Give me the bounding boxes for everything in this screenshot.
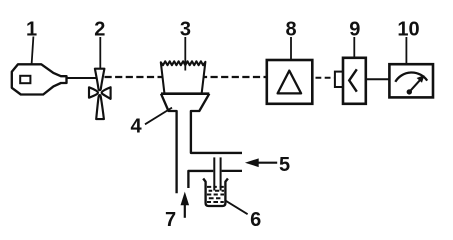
flame with zigzag top [161, 61, 206, 94]
meter needle [409, 79, 420, 92]
chopper wheel: top blade [95, 69, 105, 91]
lamp cathode window rectangle [20, 76, 30, 83]
monochromator box 8 [267, 60, 313, 104]
chopper wheel: left blade [89, 87, 98, 97]
svg-text:7: 7 [165, 209, 176, 231]
photodetector box 9 [343, 58, 366, 104]
capillary tube right wall [220, 157, 222, 190]
leader line for 2 [99, 37, 101, 69]
chopper wheel: right blade [102, 87, 111, 99]
burner collar right side, foot, stem right wall and mixing-tube top wall [191, 94, 242, 153]
beaker with sample solution [203, 179, 228, 207]
leader line for 1 [32, 37, 34, 65]
prism triangle inside box 8 [278, 71, 302, 94]
optical axis wire: lamp to chopper (solid) [67, 77, 97, 79]
svg-text:10: 10 [397, 18, 419, 40]
svg-text:5: 5 [279, 154, 290, 176]
meter pivot dot [407, 89, 412, 94]
arrow 5 (oxidant inlet) [256, 162, 277, 164]
burner head collar top edge [161, 92, 209, 95]
svg-text:6: 6 [250, 209, 261, 231]
meter scale arc [395, 72, 427, 81]
detector window tab [335, 72, 343, 87]
wire: monochromator to detector (dashed) [316, 77, 336, 79]
mixing-tube bottom wall with inlet elbow [188, 171, 213, 188]
leader line for 6 [226, 201, 248, 214]
svg-text:4: 4 [130, 115, 142, 137]
leader line for 3 [184, 37, 186, 71]
leader line for 10 [405, 37, 407, 65]
optical axis wire: chopper to monochromator (dashed) [105, 76, 267, 78]
lamp (hollow-cathode lamp) body [12, 64, 67, 94]
arrow 7 (fuel inlet) [184, 204, 186, 218]
sample liquid stipple [207, 187, 224, 202]
svg-text:1: 1 [26, 18, 37, 40]
chopper wheel: bottom blade [96, 95, 104, 119]
leader line for 9 [353, 37, 355, 58]
wire: detector to meter (solid) [366, 78, 390, 80]
meter box 10 [389, 64, 433, 97]
photocathode chevron inside box 9 [349, 69, 357, 91]
burner collar left side, foot and stem left wall [161, 94, 177, 194]
leader line for 8 [290, 37, 292, 60]
mixing-tube bottom wall right segment [222, 170, 242, 172]
leader line for 4 [145, 108, 172, 125]
capillary tube left wall [213, 157, 215, 190]
